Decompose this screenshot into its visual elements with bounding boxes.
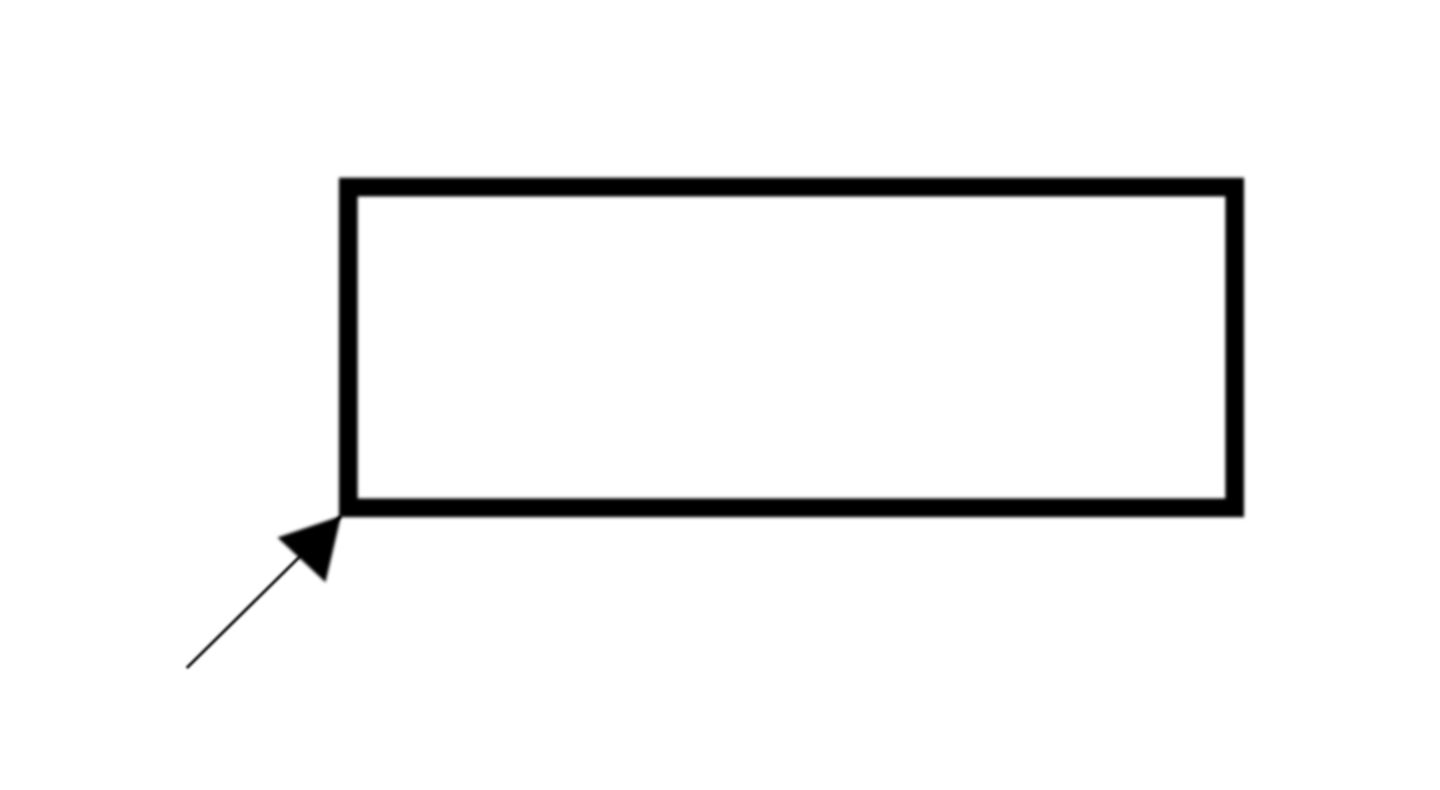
rectangle box [348,187,1234,508]
arrow line [187,516,341,668]
arrowhead [278,516,342,582]
